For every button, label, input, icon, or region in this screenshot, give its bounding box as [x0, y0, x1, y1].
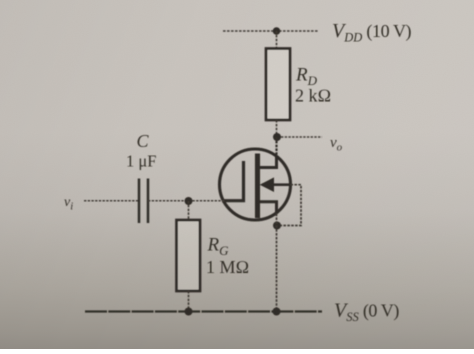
wire RD to vo node [276, 120, 278, 137]
wire drain [275, 137, 277, 168]
wire VDD to RD [276, 31, 278, 49]
resistor RG [177, 220, 201, 291]
wire source to VSS rail [276, 214, 278, 312]
wire capacitor to gate [148, 200, 225, 202]
wire input to capacitor [84, 200, 138, 202]
transistor source stub [259, 202, 277, 214]
transistor channel bar [255, 154, 260, 219]
capacitor C plates [138, 179, 141, 224]
transistor body arrow [260, 177, 274, 192]
transistor gate electrode [222, 161, 244, 201]
transistor Q1 depletion MOSFET circle [220, 149, 291, 220]
node source on rail [273, 308, 281, 316]
node RG on rail [185, 308, 193, 316]
wire VSS rail [85, 310, 322, 312]
node vo [273, 133, 281, 141]
wire gate node to RG [188, 201, 190, 220]
resistor RD [266, 49, 290, 121]
node VDD junction [273, 27, 281, 35]
transistor body lead [262, 183, 291, 186]
wire vo stub [281, 136, 322, 138]
wire VDD rail [223, 30, 319, 32]
wire body to source node [281, 185, 301, 226]
transistor drain stub [259, 156, 277, 168]
node source [273, 222, 281, 230]
wire RG to VSS rail [188, 291, 190, 312]
node gate [185, 197, 193, 205]
